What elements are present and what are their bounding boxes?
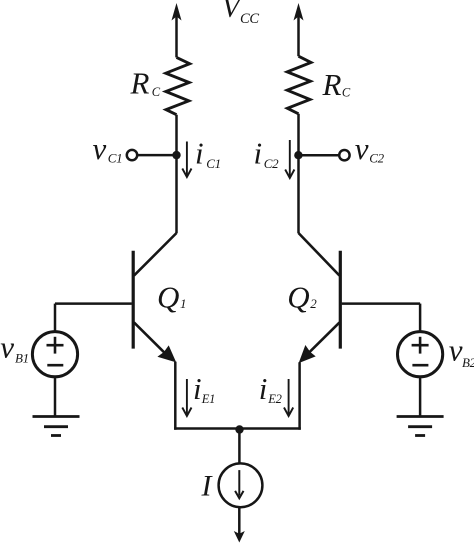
iE2 label — [259, 371, 282, 406]
voltage source vB1 circle — [32, 332, 77, 377]
iC2 current arrow — [285, 140, 294, 178]
wire vB1 source top — [54, 304, 57, 332]
I label — [201, 470, 214, 503]
svg-text:CC: CC — [240, 11, 259, 27]
vB2 label — [449, 333, 474, 370]
wire left resistor to Q1 collector — [175, 115, 178, 234]
svg-text:v: v — [449, 333, 463, 368]
transistor Q1 base bar — [132, 251, 135, 349]
voltage source vB2 circle — [398, 332, 443, 377]
svg-text:C1: C1 — [206, 156, 221, 171]
wire right supply to resistor RC2 — [297, 15, 300, 56]
RC left value label — [130, 66, 161, 101]
svg-text:i: i — [259, 371, 268, 406]
vB2 plus sign — [412, 337, 429, 354]
wire collector node to vC2 terminal — [298, 154, 338, 157]
vB1 minus sign — [47, 364, 63, 367]
wire left supply to resistor RC1 — [175, 15, 178, 57]
resistor RC left — [166, 57, 190, 114]
wire common emitter bus — [174, 427, 301, 430]
transistor Q2 collector lead — [299, 233, 340, 276]
svg-text:R: R — [322, 67, 342, 102]
svg-text:v: v — [0, 330, 14, 365]
svg-text:Q: Q — [287, 280, 309, 315]
svg-text:E2: E2 — [267, 392, 281, 406]
resistor RC right — [287, 56, 311, 114]
ground symbol left — [33, 417, 80, 436]
current source I circle — [219, 463, 263, 507]
transistor Q2 emitter lead — [308, 322, 340, 353]
vC1 label — [93, 131, 123, 166]
svg-text:v: v — [93, 131, 107, 166]
transistor Q1 emitter arrowhead — [159, 346, 176, 361]
Q1 label — [157, 280, 187, 315]
negative supply arrow down — [234, 531, 245, 543]
svg-text:C2: C2 — [369, 150, 384, 165]
svg-text:C2: C2 — [264, 156, 279, 171]
svg-text:B1: B1 — [15, 351, 29, 366]
terminal vC2 open circle — [339, 150, 349, 160]
iE1 label — [193, 371, 215, 406]
vB1 label — [0, 330, 29, 366]
svg-text:E1: E1 — [201, 392, 215, 406]
svg-text:I: I — [201, 470, 214, 503]
wire Q1 base to vB1 source — [55, 302, 132, 305]
terminal vC1 open circle — [127, 150, 137, 160]
VCC supply arrow left — [172, 3, 182, 21]
vB2 minus sign — [412, 364, 428, 367]
wire Q2 base to vB2 source — [342, 302, 420, 305]
current source I inner arrow — [235, 470, 243, 498]
RC right value label — [322, 67, 351, 102]
svg-text:1: 1 — [180, 296, 187, 311]
transistor Q1 collector lead — [134, 233, 177, 276]
transistor Q2 emitter arrowhead — [300, 346, 315, 362]
node dot tail junction — [235, 425, 243, 433]
svg-text:C: C — [152, 85, 161, 99]
transistor Q1 emitter lead — [134, 322, 166, 354]
wire Q2 emitter down — [298, 362, 301, 429]
vC2 label — [355, 131, 385, 166]
wire vB2 source bottom to ground — [419, 377, 422, 417]
vB1 plus sign — [47, 337, 64, 354]
svg-text:i: i — [193, 371, 202, 406]
iC1 current arrow — [182, 142, 191, 178]
node dot left collector — [172, 151, 180, 159]
Q2 label — [287, 280, 317, 315]
wire right resistor to Q2 collector — [297, 114, 300, 233]
wire collector node to vC1 terminal — [138, 154, 177, 157]
wire vB1 source bottom to ground — [54, 377, 57, 417]
transistor Q2 base bar — [339, 251, 342, 349]
svg-text:C1: C1 — [108, 150, 123, 165]
iE1 current arrow — [182, 379, 191, 416]
svg-text:i: i — [195, 136, 204, 171]
iC2 label — [254, 136, 280, 172]
svg-text:C: C — [342, 85, 351, 99]
iE2 current arrow — [284, 379, 293, 416]
svg-text:i: i — [254, 136, 263, 171]
wire Q1 emitter down — [174, 362, 177, 430]
svg-text:B2: B2 — [462, 355, 474, 370]
Vcc label — [222, 0, 259, 27]
svg-text:v: v — [355, 131, 369, 166]
ground symbol right — [397, 417, 444, 436]
svg-text:R: R — [130, 66, 150, 101]
iC1 label — [195, 136, 221, 172]
VCC supply arrow right — [294, 3, 304, 21]
wire current source to negative rail — [238, 507, 241, 534]
svg-text:Q: Q — [157, 280, 179, 315]
wire junction to current source I — [238, 430, 241, 464]
wire vB2 source top — [419, 304, 422, 332]
svg-text:2: 2 — [310, 296, 317, 311]
node dot right collector — [294, 151, 302, 159]
